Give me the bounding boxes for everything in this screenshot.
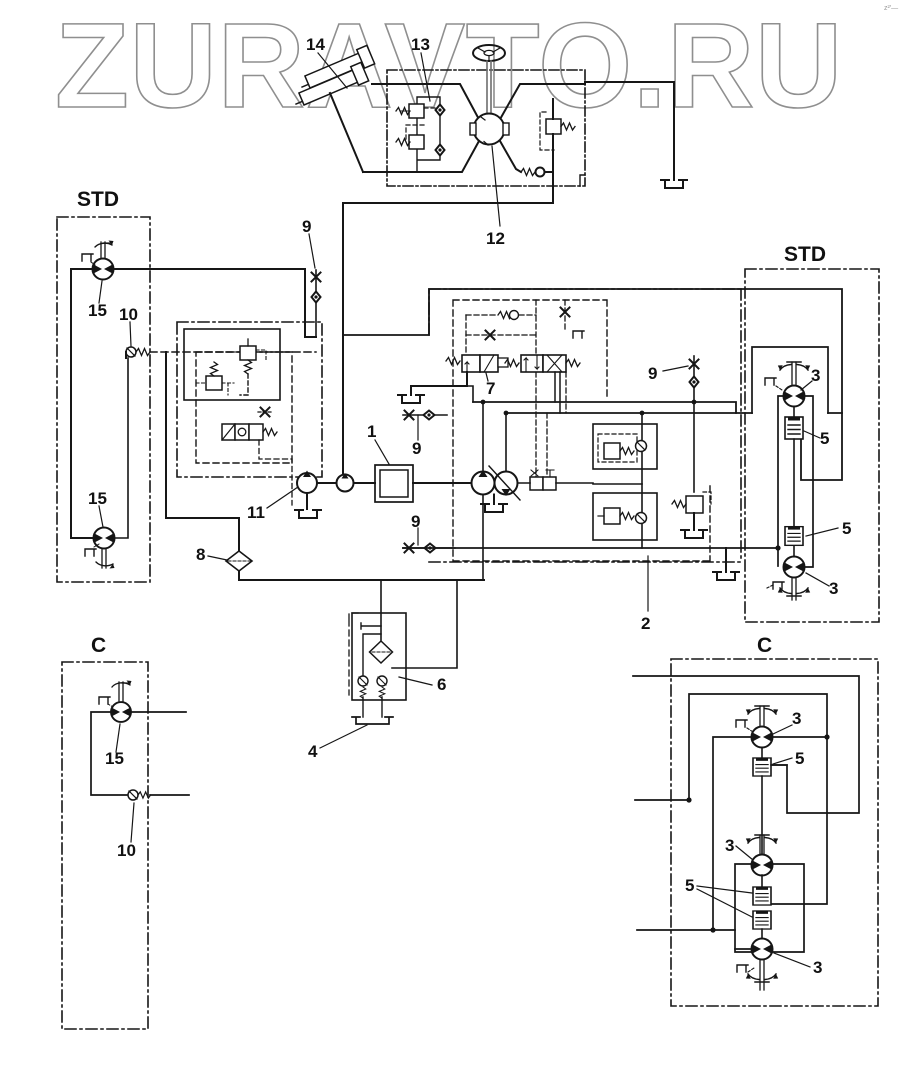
label 3 top C: [792, 709, 801, 728]
filter stub port: [361, 623, 381, 629]
cylinder 14 lower: [291, 62, 369, 110]
right STD dash-dot box: [745, 269, 879, 622]
motor 3 top C: [752, 727, 773, 748]
motor 3 top C drain: [736, 720, 753, 732]
leader 12: [492, 146, 500, 226]
label 15 C: [105, 749, 124, 768]
label 5 right lower: [842, 519, 851, 538]
wire brakes shaft C: [761, 875, 763, 939]
wire filter 8 top: [238, 518, 240, 551]
relief group inner dashed box: [196, 352, 292, 463]
leader 11: [267, 487, 298, 508]
steering column shaft: [487, 61, 491, 114]
label 15 top-left: [88, 301, 107, 320]
leader 3 mid C: [736, 846, 753, 860]
label 5 mid C: [685, 876, 694, 895]
right STD inner solid box: [752, 347, 828, 413]
relief valve upper-left in block: [396, 104, 424, 118]
label 11: [247, 503, 265, 522]
label 7: [486, 379, 495, 398]
svg-text:9: 9: [412, 439, 421, 458]
label 8: [196, 545, 205, 564]
test point 9d: [690, 356, 699, 402]
wire shaft brake to brake: [793, 407, 795, 528]
wire shuttle to cartridges: [593, 483, 642, 485]
label 13: [411, 35, 430, 54]
wire filter 8 bottom to drain line: [239, 571, 484, 580]
left C dash-dot box: [62, 662, 148, 1029]
leader 5 mid C double: [697, 886, 752, 917]
svg-text:5: 5: [842, 519, 851, 538]
leader 10 left: [130, 322, 131, 346]
wire checks to tank: [363, 697, 382, 717]
check diamond lower in block: [436, 145, 445, 156]
svg-text:11: 11: [247, 503, 265, 522]
motor 3 top rotation arrows: [778, 362, 810, 370]
leader 5 top C: [773, 758, 792, 764]
wire steering X bottom-right: [500, 141, 521, 172]
svg-text:3: 3: [829, 579, 838, 598]
wire funnel left from cylinders: [330, 93, 363, 172]
tank valve 7: [398, 395, 424, 403]
cartridge top check: [636, 441, 647, 452]
pilot line with throttle x left: [466, 331, 536, 340]
pilot throttle x right: [561, 300, 570, 329]
cartridge top relief: [604, 443, 634, 459]
motor 15 C shaft: [119, 682, 123, 702]
steering unit 12 circle: [470, 114, 509, 146]
cartridge top right solid box: [593, 424, 657, 469]
relief valve A top: [240, 339, 266, 374]
relief valve right side of block: [546, 119, 575, 134]
leader 3 bottom C: [774, 953, 810, 967]
wire pump drain long down: [482, 495, 484, 581]
main pump 2 right circle: [495, 472, 518, 497]
svg-text:10: 10: [119, 305, 138, 324]
svg-text:9: 9: [302, 217, 311, 236]
svg-text:10: 10: [117, 841, 136, 860]
svg-text:15: 15: [88, 301, 107, 320]
leader 9 top: [309, 234, 315, 268]
wire left STD loop: [71, 269, 93, 538]
valve 10 C: [128, 790, 151, 800]
wire solenoid valve down double: [555, 372, 560, 413]
wire relief A down: [240, 374, 248, 395]
label 15 bottom-left: [88, 489, 107, 508]
wire steering return to charge pump: [343, 203, 553, 474]
filter check right: [377, 676, 387, 698]
label 3 bottom C: [813, 958, 822, 977]
motor 15 C rotation arrow: [112, 681, 132, 688]
motor 3 mid C: [752, 855, 773, 876]
label 9d: [648, 364, 657, 383]
cartridge bottom check: [636, 513, 647, 524]
svg-text:ZURAVTO.RU: ZURAVTO.RU: [55, 0, 843, 133]
leader 4: [320, 725, 367, 748]
tank pump 11: [295, 510, 321, 518]
svg-text:z²′—: z²′—: [884, 5, 898, 12]
label 12: [486, 229, 505, 248]
wire brake2 to motor bottom: [793, 546, 795, 557]
charge pump small circle: [337, 473, 354, 492]
leader 15 top: [99, 281, 102, 303]
leader 3 top right: [801, 381, 812, 390]
wire brake C right to lineA: [771, 764, 787, 766]
wire right C line B: [635, 694, 827, 904]
brake 5 mid C: [753, 887, 771, 905]
motor 15 bottom: [94, 528, 115, 549]
motor 3 top drain: [765, 378, 782, 390]
test point 9b: [403, 411, 447, 441]
junction dot bottom line to loop: [775, 545, 780, 550]
wire steering X top-right: [501, 84, 585, 118]
leader 3 top C: [773, 725, 792, 734]
wire supply right of filter: [392, 580, 457, 668]
junction dots pump lines: [481, 400, 697, 416]
wire top-right exit to tank drop: [585, 82, 674, 180]
label 9 top: [302, 217, 311, 236]
cartridge bottom right solid box: [593, 493, 657, 540]
svg-text:3: 3: [813, 958, 822, 977]
tank filter: [352, 717, 393, 724]
motor 15 C drain: [99, 697, 113, 707]
valve 10 left: [126, 347, 150, 357]
tank top right: [661, 180, 687, 188]
svg-text:5: 5: [685, 876, 694, 895]
wire motor3C right port: [772, 736, 827, 738]
right C dash-dot box: [671, 659, 878, 1006]
svg-text:C: C: [757, 634, 772, 657]
relief valve lower-left in block: [396, 135, 424, 149]
svg-text:5: 5: [820, 429, 829, 448]
dashed pilot box around left relief pair: [406, 108, 438, 139]
motor 15 bottom rotation arrow: [96, 562, 115, 569]
wire valve 10 C stub: [150, 794, 189, 796]
throttle x in relief box: [258, 408, 272, 417]
check diamond upper in block: [436, 105, 445, 116]
wire motor top to right long line: [114, 269, 317, 337]
motor 15 bottom drain symbol: [85, 544, 99, 556]
label C left: [91, 634, 106, 657]
label 14: [306, 35, 325, 54]
leader 10 C: [131, 803, 134, 842]
test point 9a: [312, 270, 321, 337]
motor 15 top shaft: [101, 242, 105, 258]
label 9c: [411, 512, 420, 531]
long line L2: [506, 412, 842, 414]
svg-text:4: 4: [308, 742, 318, 761]
motor 3 top right: [784, 386, 805, 407]
box 2 inner dashed: [453, 300, 710, 561]
brake 5 top C: [753, 758, 771, 776]
brake 5 bottom right: [785, 527, 803, 546]
motor 15 left C: [111, 702, 131, 722]
leader 6: [399, 677, 432, 685]
motor 15 top drain symbol: [82, 254, 95, 265]
leader 1: [375, 440, 389, 464]
relief group solid box: [184, 329, 280, 400]
wire pump to shuttle: [518, 482, 594, 484]
motor 15 top rotation arrow: [95, 241, 114, 248]
leader 15 C: [116, 724, 120, 752]
check valve with spring bottom-right of steering: [521, 168, 545, 177]
wire pump up lines: [483, 402, 506, 472]
wire right C line 3: [637, 929, 735, 931]
motor 3 bottom right: [784, 557, 805, 578]
cartridge bottom relief: [598, 508, 634, 524]
drain stub on block bottom: [580, 175, 585, 186]
svg-text:3: 3: [792, 709, 801, 728]
svg-text:15: 15: [105, 749, 124, 768]
motor 3 top C rotation arrows: [746, 706, 778, 714]
svg-text:1: 1: [367, 422, 376, 441]
svg-text:12: 12: [486, 229, 505, 248]
steering wheel: [473, 45, 505, 61]
box 2 outer dash-dot: [429, 289, 741, 562]
steering unit block 13 dash-dot box: [387, 70, 585, 186]
leader 13: [421, 53, 430, 101]
wire motor C left loop: [91, 712, 128, 795]
motor 15 top: [93, 259, 114, 280]
motor 3 mid C shaft: [760, 835, 764, 855]
filter assembly 6 box: [352, 613, 406, 700]
wire right C mid loop box: [735, 864, 804, 952]
wire valve10 down to motor bottom: [114, 358, 128, 538]
left STD dash-dot box: [57, 217, 150, 582]
leader 5 right lower: [806, 528, 838, 536]
wire pump11 to tank: [306, 493, 308, 509]
label 2: [641, 614, 650, 633]
label 6: [437, 675, 446, 694]
filter diamond: [370, 641, 393, 663]
label 3 top right: [811, 366, 820, 385]
relief ladder left in block: vertical rails: [417, 97, 440, 172]
motor 15 bottom shaft: [102, 549, 106, 568]
pump tank bracket: [481, 495, 507, 513]
long line L1: [473, 402, 736, 413]
wire pressure line to right STD: [343, 289, 842, 480]
svg-text:STD: STD: [784, 243, 826, 266]
relief small right in box2: [672, 402, 711, 530]
motor 3 top shaft: [792, 362, 796, 386]
dashed box around right relief: [540, 112, 554, 150]
brake 5 top right: [785, 417, 803, 439]
svg-text:9: 9: [648, 364, 657, 383]
svg-text:14: 14: [306, 35, 325, 54]
wire junction to vertical drop: [166, 352, 239, 518]
tank relief box2: [681, 530, 707, 538]
filter 8: [226, 551, 252, 571]
svg-text:3: 3: [725, 836, 734, 855]
label 5 top right: [820, 429, 829, 448]
motor 3 bottom shaft: [792, 578, 796, 601]
motor 3 bottom drain: [767, 582, 784, 589]
wire right relief vertical: [552, 99, 554, 203]
svg-text:8: 8: [196, 545, 205, 564]
wire steering X bottom-left: [363, 141, 479, 172]
label 1: [367, 422, 376, 441]
wire valve10 to right dashed: [150, 351, 316, 353]
wire box1 to main pump: [413, 482, 472, 484]
motor 3 bottom C drain: [737, 965, 754, 972]
leader 3 bottom right: [806, 573, 829, 586]
long bottom line: [403, 547, 778, 549]
relief valve B left: [196, 362, 234, 395]
motor 3 bottom C shaft: [760, 960, 764, 991]
label C right: [757, 634, 772, 657]
solenoid valve in relief box: [222, 424, 277, 440]
leader 5 top right: [804, 431, 820, 438]
filter check left: [358, 676, 368, 698]
label 9b: [412, 439, 421, 458]
motor 3 bottom C: [752, 939, 773, 960]
label 4: [308, 742, 318, 761]
wire supply up from L1: [467, 386, 473, 402]
watermark ZURAVTO.RU: [55, 0, 898, 133]
wire shaft motorC mid: [761, 748, 763, 856]
pilot dashed line with check top: [466, 311, 536, 320]
leader 9d: [663, 366, 688, 371]
cartridge top inner dashed: [598, 434, 637, 462]
filter left branch: [363, 634, 381, 676]
leader 7: [486, 373, 488, 381]
junction dots right C: [686, 734, 829, 932]
dashed pilot lines below solenoid: [259, 440, 292, 505]
wire from check to corner: [545, 171, 554, 173]
pilot tank bracket right: [573, 331, 584, 338]
charge pump 11: [297, 471, 317, 494]
gearbox 1 double box: [375, 465, 413, 502]
wire drain into filter: [380, 581, 382, 640]
tank stub on bottom line: [713, 548, 739, 580]
label 3 bottom right: [829, 579, 838, 598]
svg-text:9: 9: [411, 512, 420, 531]
svg-text:3: 3: [811, 366, 820, 385]
pilot dashed verticals: [466, 300, 566, 478]
label STD right: [784, 243, 826, 266]
label 3 mid C: [725, 836, 734, 855]
motor 3 bottom C rotation arrows: [746, 974, 778, 982]
svg-text:C: C: [91, 634, 106, 657]
svg-text:6: 6: [437, 675, 446, 694]
shuttle block: [530, 470, 556, 490]
wire funnel top from cylinders: [372, 83, 416, 85]
main pump 2 left circle: [472, 470, 495, 495]
wire valve10 line left: [125, 352, 127, 358]
label 10 left: [119, 305, 138, 324]
filter 6 dashed edge: [349, 613, 360, 695]
label 10 C: [117, 841, 136, 860]
motor 3 top C shaft: [760, 706, 764, 726]
svg-text:2: 2: [641, 614, 650, 633]
wire right C line A: [633, 676, 859, 813]
relief group dash-dot box 11: [177, 322, 322, 477]
svg-text:15: 15: [88, 489, 107, 508]
svg-text:STD: STD: [77, 188, 119, 211]
label 5 top C: [795, 749, 804, 768]
brake 5 low C: [753, 911, 771, 929]
valve 7 pilot 3/2: [446, 355, 508, 372]
wire steering X top-left: [416, 84, 478, 118]
motor 3 bottom rotation arrows: [778, 588, 810, 596]
solenoid valve 4/2: [505, 355, 580, 372]
wire cartridge vertical: [641, 413, 643, 548]
svg-text:13: 13: [411, 35, 430, 54]
pump variable arrow: [489, 466, 520, 500]
cylinder 14 upper: [297, 45, 375, 93]
wire motor loop right STD: [778, 396, 813, 567]
wire valve7 drain to tank: [411, 372, 467, 395]
wire right C inner loop: [713, 737, 752, 949]
test point 9c: [403, 528, 455, 553]
leader 2: [647, 556, 649, 611]
label STD left: [77, 188, 119, 211]
leader 15 bottom: [99, 506, 103, 527]
motor 3 mid C rotation arrows: [746, 835, 778, 843]
svg-text:7: 7: [486, 379, 495, 398]
wire pump11 circles link: [317, 482, 375, 484]
wire motor C right stub: [131, 711, 186, 713]
leader 8: [208, 556, 227, 560]
leader 14: [318, 53, 347, 88]
svg-text:5: 5: [795, 749, 804, 768]
